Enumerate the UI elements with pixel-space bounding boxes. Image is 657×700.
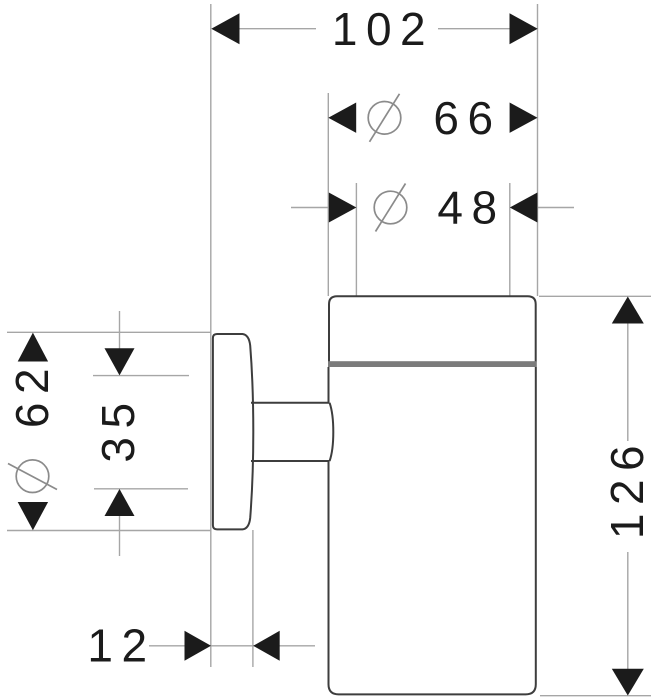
svg-text:48: 48: [437, 182, 505, 234]
rim thick gray band: [328, 361, 537, 367]
arrow d66 right: [510, 103, 538, 133]
arrow d48 right (points left): [510, 193, 538, 223]
tumbler rim band: [329, 296, 536, 362]
arrow 35 bottom (points up): [105, 489, 135, 516]
dim line 126 lower segment: [627, 552, 629, 670]
dim line 102 left segment: [239, 28, 316, 30]
arrow 12 right (points left): [253, 631, 280, 661]
arrow d62 top (points up): [18, 333, 48, 362]
svg-text:66: 66: [433, 92, 501, 144]
mounting arm: [251, 403, 333, 461]
svg-text:102: 102: [332, 3, 434, 55]
ext line 102-right / d66-right: [537, 4, 539, 296]
dim line d48 right stub: [538, 207, 575, 209]
ext line 102-left / 12-left (long vertical): [210, 4, 212, 667]
svg-text:62: 62: [6, 360, 58, 428]
diameter symbol d48: [374, 184, 407, 232]
dim line d48 left stub: [291, 207, 330, 209]
tumbler body: [329, 367, 536, 694]
arrow 35 top (points down): [105, 348, 135, 375]
arrow 102 left: [211, 13, 239, 44]
arrow 12 left (points right): [185, 631, 212, 661]
dim line 35 bottom stub: [119, 490, 121, 556]
wall plate (side view): [213, 334, 253, 529]
dim line 102 right segment: [438, 28, 511, 30]
ext line d48-right: [509, 183, 511, 296]
ext line 126 top: [539, 295, 651, 297]
ext line d62 top: [7, 331, 212, 333]
ext line d48-left: [355, 183, 357, 296]
arrow 102 right: [510, 13, 538, 44]
ext line d62 bottom: [7, 530, 212, 532]
dim line 126 upper segment: [627, 316, 629, 441]
diameter symbol d62 (rotated): [8, 460, 57, 493]
ext line 35 top: [93, 375, 189, 377]
arrow 126 bottom (points down): [612, 669, 644, 696]
ext line 12-right: [252, 530, 254, 667]
ext line 35 bottom: [94, 488, 188, 490]
arrow d66 left: [328, 103, 356, 133]
svg-text:126: 126: [601, 437, 653, 539]
ext line 126 bottom: [540, 695, 651, 697]
diameter symbol d66: [368, 94, 401, 142]
dim line 12: [149, 645, 315, 647]
arrow d62 bottom (points down): [18, 502, 48, 530]
svg-text:12: 12: [87, 620, 155, 672]
svg-text:35: 35: [92, 394, 144, 462]
arrow d48 left (points right): [329, 193, 357, 223]
ext line d66-left: [327, 93, 329, 296]
dim line 35 top stub: [119, 311, 121, 374]
arrow 126 top (points up): [612, 297, 644, 324]
